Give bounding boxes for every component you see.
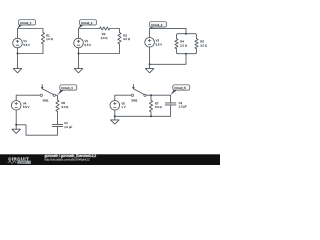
svg-text:1.0 Ω: 1.0 Ω — [46, 37, 53, 41]
svg-text:2.0 Ω: 2.0 Ω — [180, 43, 187, 47]
svg-text:1.0 μF: 1.0 μF — [179, 105, 187, 109]
svg-text:Circuit_2: Circuit_2 — [81, 21, 93, 25]
svg-text:SW1: SW1 — [43, 98, 50, 102]
svg-text:SW2: SW2 — [131, 99, 138, 103]
svg-text:6.0 Ω: 6.0 Ω — [155, 105, 162, 109]
svg-text:1.0 μF: 1.0 μF — [64, 125, 72, 129]
svg-text:5.5 V: 5.5 V — [23, 43, 30, 47]
svg-text:Circuit_3: Circuit_3 — [151, 23, 163, 27]
svg-text:Circuit_1: Circuit_1 — [20, 21, 32, 25]
svg-text:http://circuitlab.com/c6kx7b48: http://circuitlab.com/c6kx7b48yhk12 — [45, 158, 90, 162]
svg-text:Circuit_4: Circuit_4 — [61, 86, 73, 90]
svg-text:5.5 V: 5.5 V — [156, 42, 163, 46]
svg-text:6.0 Ω: 6.0 Ω — [62, 105, 69, 109]
svg-text:5.5 V: 5.5 V — [85, 43, 92, 47]
svg-text:5.5 V: 5.5 V — [23, 105, 30, 109]
svg-text:LAB: LAB — [19, 160, 27, 164]
svg-text:1 V: 1 V — [121, 105, 125, 109]
svg-text:2.0 Ω: 2.0 Ω — [101, 36, 108, 40]
svg-text:3.0 Ω: 3.0 Ω — [200, 43, 207, 47]
svg-text:Circuit_5: Circuit_5 — [174, 86, 186, 90]
svg-text:3.0 Ω: 3.0 Ω — [123, 37, 130, 41]
